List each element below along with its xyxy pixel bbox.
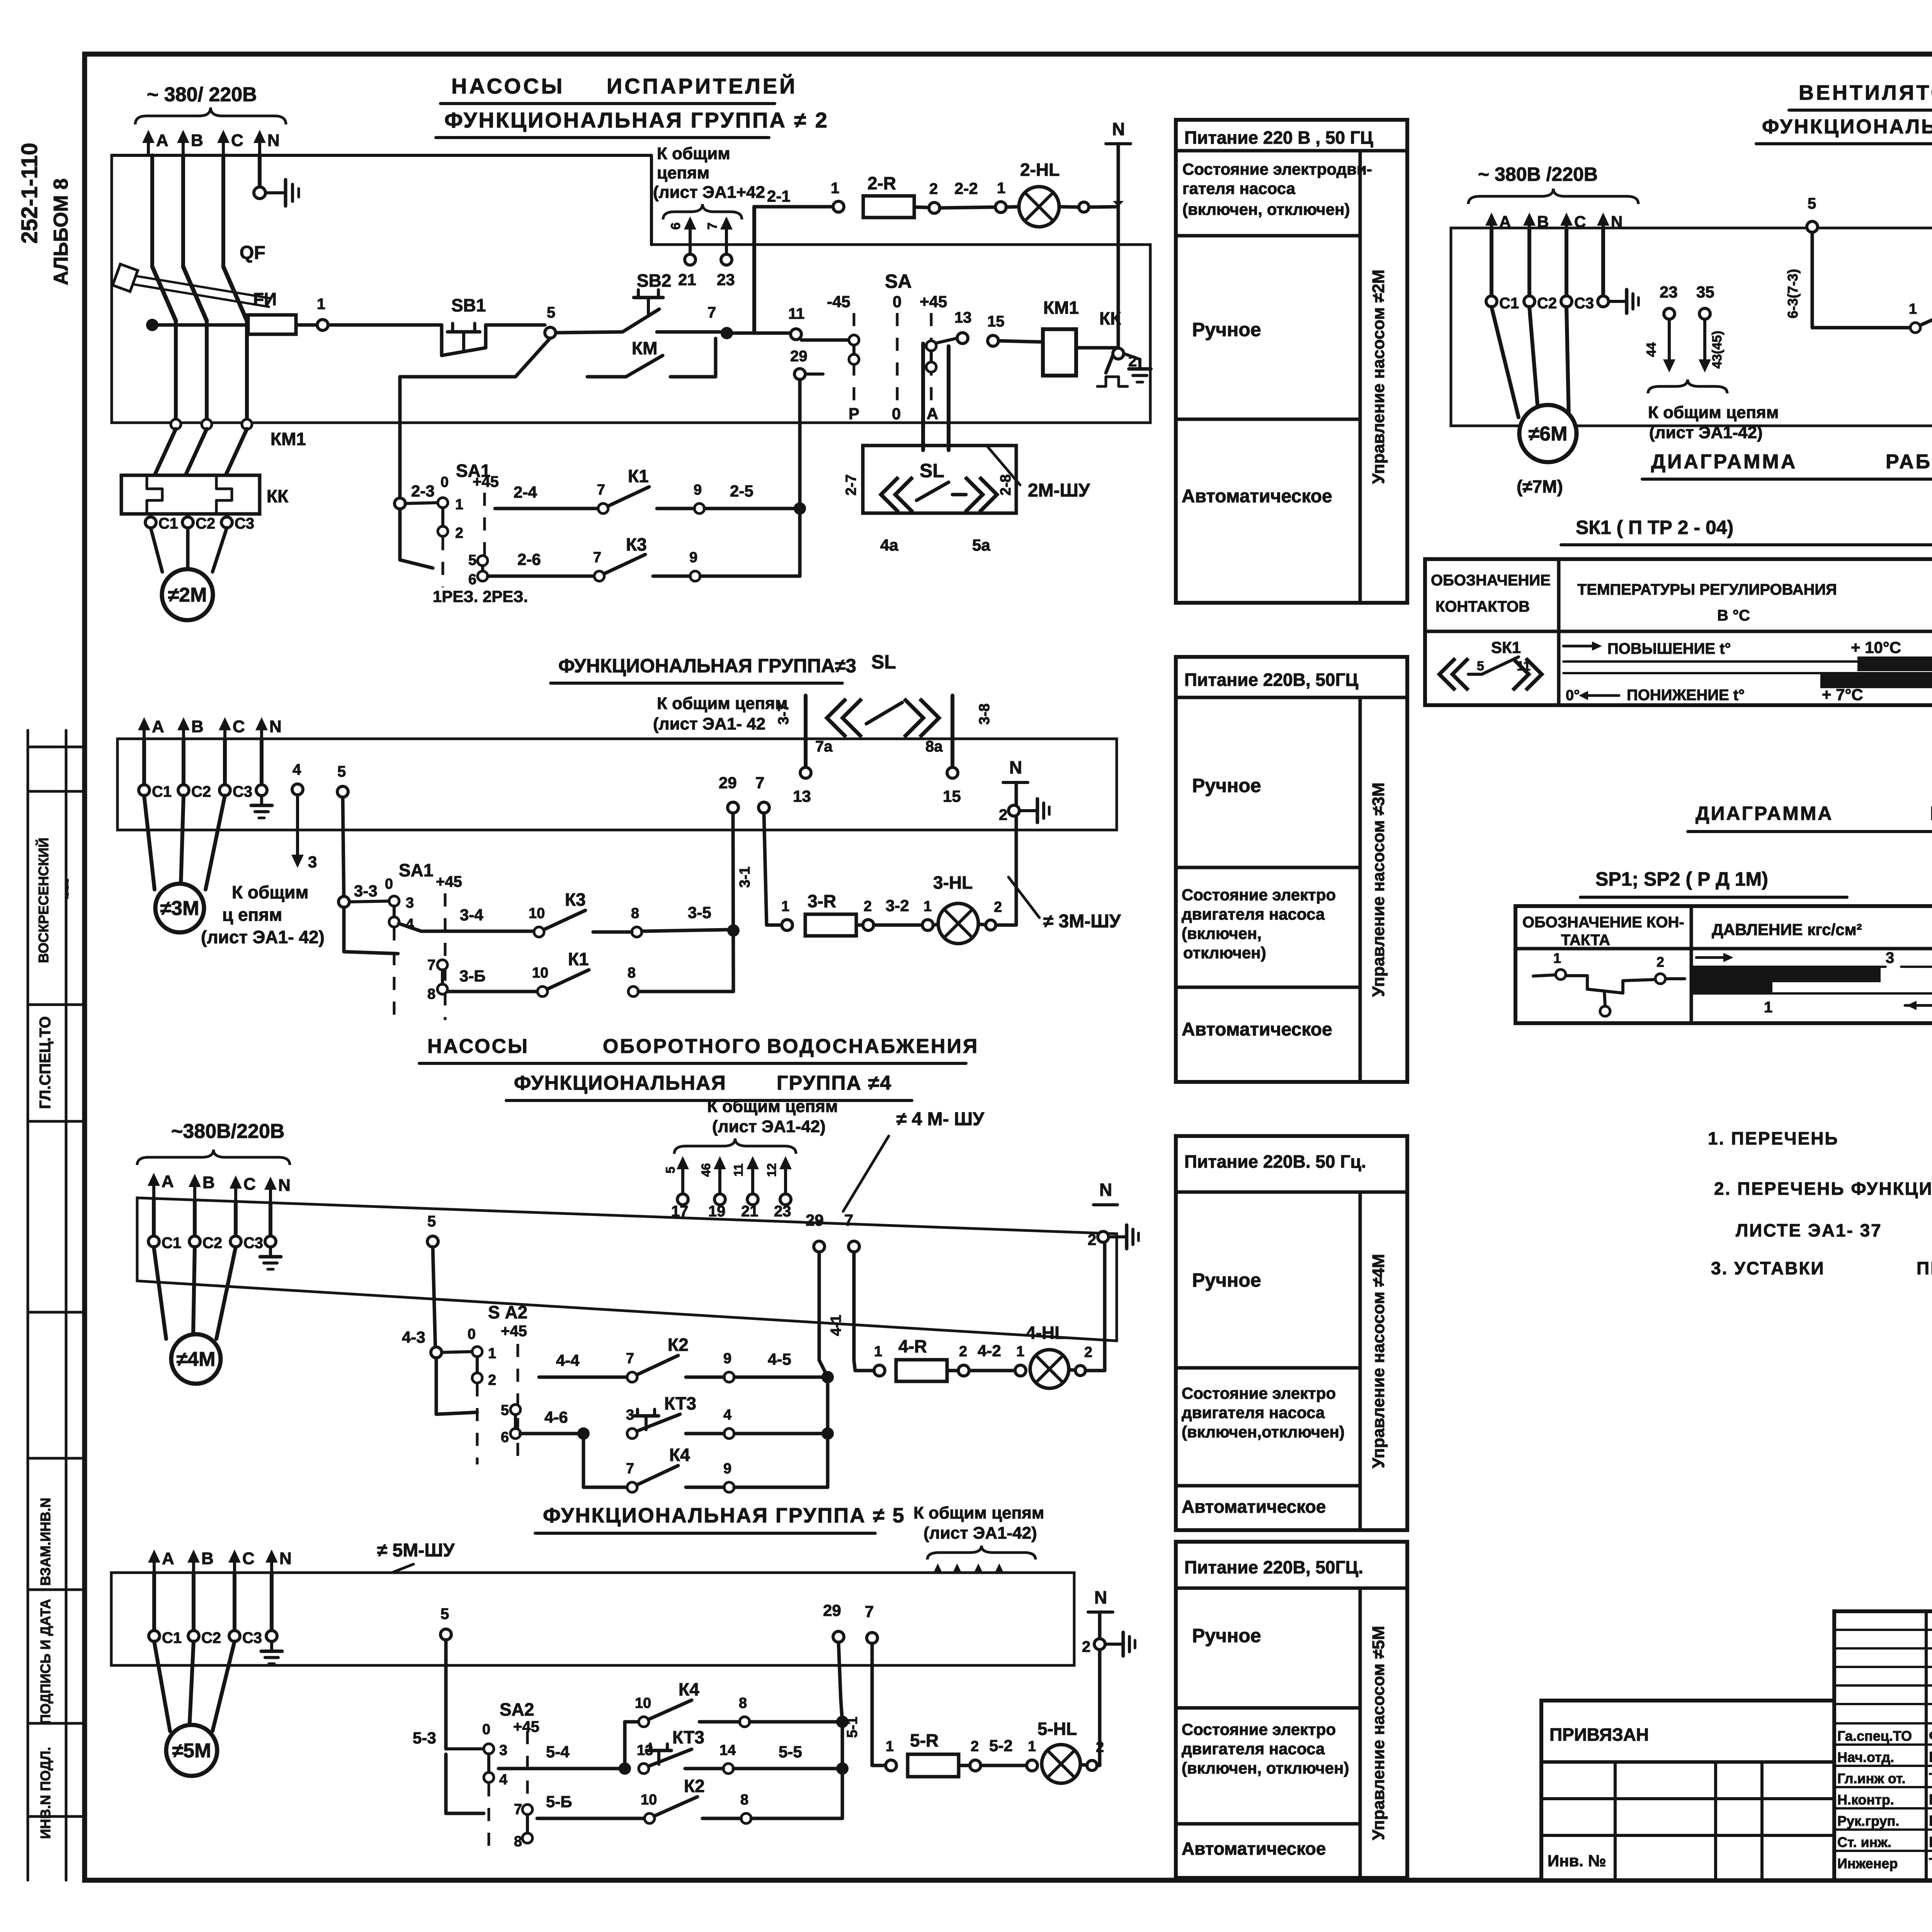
svg-text:13: 13 [793,787,811,805]
wire 4-2 group4 [969,1342,1015,1371]
svg-text:7: 7 [755,774,764,792]
svg-text:НАСОСЫ: НАСОСЫ [451,74,565,98]
svg-text:1: 1 [1016,1344,1024,1360]
svg-text:1: 1 [1028,1738,1036,1755]
terminal 4 group3 [291,761,317,871]
wire phase C down group2 [221,155,225,267]
heading ДИАГРАММА РАБОТЫ КОНТАКТОВ РЕЛЕ ДАВЛЕНИЙ [1688,802,1932,832]
svg-text:19: 19 [708,1203,726,1220]
svg-text:+ 7°С: + 7°С [1822,685,1863,704]
svg-text:3: 3 [499,1742,507,1759]
neutral N branch group2 [1106,119,1131,348]
svg-text:1: 1 [455,497,463,513]
svg-text:5: 5 [1477,659,1484,673]
phase input B group3 [177,717,204,739]
svg-text:К3: К3 [626,534,647,554]
svg-text:35: 35 [1696,283,1714,301]
svg-text:9: 9 [694,482,702,498]
svg-text:≠4М: ≠4М [177,1348,216,1371]
pressure switch symbol SP [1533,950,1685,1016]
svg-text:Гл.инж от.: Гл.инж от. [1837,1770,1905,1786]
svg-text:ВЕНТИЛЯТОРЫ: ВЕНТИЛЯТОРЫ [1799,81,1932,104]
svg-text:23: 23 [717,270,735,289]
wire node15 down to SL [947,346,951,450]
svg-text:2-4: 2-4 [514,483,537,501]
svg-text:ДИАГРАММА: ДИАГРАММА [1651,451,1797,473]
svg-text:А: А [927,405,938,423]
svg-text:3: 3 [1886,949,1894,966]
svg-text:8а: 8а [925,738,943,755]
phase input A group2 [142,130,168,155]
svg-text:К общим цепям: К общим цепям [913,1503,1044,1522]
svg-text:Га.спец.ТО: Га.спец.ТО [1837,1728,1912,1744]
svg-text:2-7: 2-7 [843,474,859,496]
svg-text:N: N [278,1176,291,1195]
left margin cell dividers [28,747,85,1816]
svg-text:С: С [243,1175,256,1194]
terminals to common circuits group4 [663,1097,838,1220]
svg-text:3-3: 3-3 [354,882,378,900]
resistor 4-R group4 [896,1336,947,1381]
node 7 group5 [865,1602,886,1765]
svg-text:ВОДОСНАБЖЕНИЯ: ВОДОСНАБЖЕНИЯ [767,1035,979,1058]
interlock contact K4 group4 [583,1439,828,1492]
svg-text:29: 29 [823,1601,841,1619]
svg-text:В °С: В °С [1717,607,1750,624]
svg-text:К1: К1 [568,949,589,969]
svg-text:В: В [201,1549,214,1568]
wire 2-2 group2 [940,179,995,208]
svg-text:21: 21 [678,270,696,289]
svg-text:SА2: SА2 [500,1699,534,1719]
svg-text:С2: С2 [202,1235,222,1252]
svg-text:1: 1 [997,180,1005,197]
svg-text:8: 8 [631,905,639,922]
diagram rows SK1 [1563,638,1932,704]
svg-text:Управление насосом ≠4М: Управление насосом ≠4М [1369,1254,1388,1468]
wires phases down group6 [1492,228,1603,296]
node 1 of 4-R group4 [874,1344,885,1376]
phase input B group2 [177,130,203,155]
svg-text:двигателя насоса: двигателя насоса [1182,1403,1325,1422]
resistor 3-R group3 [805,891,856,936]
svg-text:ПРИВЯЗАН: ПРИВЯЗАН [1549,1725,1649,1745]
phase input C group3 [219,717,245,739]
label ~380/220В group2 [135,83,286,124]
svg-text:15: 15 [943,787,961,805]
node 1 of lamp group3 [922,898,933,930]
svg-text:2-R: 2-R [867,173,896,193]
phase input C group4 [230,1175,256,1202]
neutral input N group3 [255,717,282,739]
svg-text:2: 2 [864,898,872,915]
note 3 уставки приборов [1711,1258,1932,1278]
svg-text:43(45): 43(45) [1710,331,1725,369]
label К общим цепям group3 motor [201,882,325,947]
title НАСОСЫ ИСПАРИТЕЛЕЙ [440,74,797,104]
svg-text:С1: С1 [162,1629,182,1646]
wire node 11 to SA group2 [801,338,849,342]
svg-text:К общим: К общим [232,882,309,902]
svg-text:КТ3: КТ3 [672,1727,704,1747]
label 5М-ШУ with leader group5 [330,1540,455,1597]
svg-text:ц епям: ц епям [222,905,282,925]
svg-text:23: 23 [774,1203,791,1220]
svg-text:ДИАГРАММА: ДИАГРАММА [1696,803,1833,824]
svg-text:К4: К4 [679,1679,699,1699]
svg-text:5а: 5а [972,536,990,554]
svg-text:0: 0 [892,405,901,423]
svg-text:5: 5 [547,304,555,321]
svg-text:2: 2 [1656,954,1664,970]
svg-text:Р: Р [849,405,859,423]
svg-text:ПОДПИСЬ И ДАТА: ПОДПИСЬ И ДАТА [37,1599,53,1724]
svg-text:SВ2: SВ2 [637,270,671,291]
node 2 of 2-R [914,180,940,213]
svg-text:2: 2 [929,180,938,197]
svg-text:Управление насосом ≠5М: Управление насосом ≠5М [1369,1626,1388,1840]
svg-text:5-5: 5-5 [779,1743,802,1761]
node 2 of lamp 2-HL [1059,202,1089,212]
svg-text:5-Б: 5-Б [546,1793,572,1811]
subtitle ФУНКЦИОНАЛЬНАЯ ГРУППА N4 [506,1072,912,1100]
phase input B group4 [189,1173,215,1200]
svg-text:12: 12 [765,1163,779,1177]
circuit breaker QF group2 [113,243,270,321]
node 29 wire group2 [790,348,823,576]
svg-text:3-5: 3-5 [688,903,711,922]
svg-text:К3: К3 [565,889,586,910]
svg-text:3-1: 3-1 [737,867,753,888]
wire phases down group3 [144,739,262,785]
lamp 3-HL group3 [933,872,978,944]
svg-text:3-Б: 3-Б [459,967,486,985]
table SK1 diagram [1425,559,1932,705]
svg-text:~ 380В /220В: ~ 380В /220В [1478,163,1598,185]
title НАСОСЫ ОБОРОТНОГО ВОДОСНАБЖЕНИЯ [419,1035,979,1063]
cabinet box group3 [117,739,1117,830]
node 1 of lamp group5 [1027,1738,1037,1771]
svg-text:14: 14 [719,1742,736,1759]
svg-text:В: В [191,131,203,150]
svg-text:Кожаринова: Кожаринова [1929,1813,1932,1829]
svg-text:7: 7 [626,1350,634,1367]
svg-text:4-5: 4-5 [768,1350,791,1368]
interlock contact K3 group3 [399,889,728,937]
heading ДИАГРАММА РАБОТЫ КОНТАКТОВ ПРИБОРОВ [1642,451,1932,479]
label 1рез 2рез group2 [433,587,528,605]
terminals C1 C2 C3 group3 [139,783,252,800]
svg-text:Состояние электро: Состояние электро [1182,1384,1336,1402]
svg-text:2: 2 [1084,1344,1092,1361]
label 2М-ШУ with leader [987,446,1090,501]
svg-text:N: N [279,1549,292,1568]
svg-text:≠ 4 М- ШУ: ≠ 4 М- ШУ [896,1109,985,1129]
relay contact K5(K6) group6 [1812,283,1932,333]
node 1 of lamp 2-HL [995,180,1006,213]
phase input A group4 [148,1172,174,1199]
svg-text:Филин: Филин [1929,1728,1932,1744]
svg-text:N: N [1009,757,1022,777]
svg-text:1: 1 [781,898,789,915]
terminals to common circuits group5 [913,1503,1044,1631]
table управление насосом 5М [1176,1542,1407,1878]
resistor 5-R group5 [908,1730,959,1777]
svg-text:Н.контр.: Н.контр. [1837,1792,1894,1808]
svg-text:Рощин: Рощин [1929,1749,1932,1765]
svg-text:цепям: цепям [657,163,709,182]
contactor KM1 main contacts group2 [155,419,306,475]
svg-text:≠6М: ≠6М [1529,423,1568,445]
neutral input N group4 [264,1176,291,1203]
note 1 перечень аппаратуры [1708,1128,1932,1148]
svg-text:21: 21 [741,1203,759,1220]
svg-text:(лист ЭА1-42): (лист ЭА1-42) [712,1117,826,1136]
svg-text:+ 10°С: + 10°С [1851,638,1901,656]
svg-text:Ручное: Ручное [1192,775,1261,796]
svg-text:≠ 3М-ШУ: ≠ 3М-ШУ [1043,911,1121,932]
interlock contact K3 group2 [488,534,800,581]
svg-text:≠2М: ≠2М [168,584,207,606]
thermal relay KK heaters group2 [121,475,289,514]
motor 6M group6 [1492,307,1577,497]
thermal contact KK group2 [1076,308,1128,386]
svg-text:2: 2 [455,525,463,541]
svg-text:А: А [162,1172,174,1191]
subtitle ФУНКЦИОНАЛЬНАЯ ГРУППА N3 [551,655,856,683]
svg-text:9: 9 [723,1350,731,1367]
svg-text:3: 3 [308,853,317,871]
svg-text:N: N [1094,1587,1107,1607]
svg-text:(лист ЭА1- 42: (лист ЭА1- 42 [653,714,765,733]
svg-text:13: 13 [954,309,972,326]
svg-text:А: А [152,717,164,736]
label ~380В/220В group6 [1468,163,1638,204]
wire 5-2 group5 [981,1736,1027,1765]
svg-text:29: 29 [790,348,808,365]
terminal 5 group4 [427,1213,438,1352]
ground symbol at KK group2 [1124,354,1151,382]
document number 252-1-110 rotated [17,143,42,243]
label ~380В/220В group4 [137,1120,290,1165]
wire lamp to N group4 [1103,1242,1107,1371]
svg-text:2-6: 2-6 [517,550,541,568]
title SP1 SP2 (РД 1М) [1580,868,1847,897]
svg-text:6-3(7-3): 6-3(7-3) [1785,269,1801,318]
svg-text:≠5М: ≠5М [172,1740,211,1762]
svg-text:К общим цепям: К общим цепям [707,1097,838,1116]
svg-text:С1: С1 [158,515,178,532]
svg-text:7а: 7а [815,738,833,755]
svg-text:8: 8 [514,1833,522,1850]
svg-text:(лист ЭА1-42): (лист ЭА1-42) [923,1524,1037,1543]
svg-text:2: 2 [1082,1638,1090,1655]
svg-text:44: 44 [1644,342,1659,357]
svg-text:7: 7 [705,223,720,230]
svg-text:Автоматическое: Автоматическое [1182,1838,1326,1859]
svg-text:Автоматическое: Автоматическое [1182,486,1332,507]
wire QF to KM1 phase A [174,321,178,419]
svg-text:Ст. инж.: Ст. инж. [1837,1834,1891,1850]
motor terminals C1 C2 C3 group2 [145,515,254,532]
wire node13 down to SL [921,344,925,450]
svg-text:5: 5 [468,552,476,568]
svg-text:1: 1 [1909,301,1917,317]
fuse FU group2 [146,289,296,334]
svg-text:2-2: 2-2 [954,179,978,197]
limit switch SL contacts group2 [843,460,1014,554]
svg-text:С2: С2 [196,515,215,532]
motor 2M group2 [151,528,227,620]
wire node1 to SB1 [328,323,442,327]
node 2 of 3-R group3 [856,898,874,930]
table SP1 SP2 diagram [1515,906,1932,1023]
node 15 group2 [987,313,1005,346]
svg-text:С1: С1 [152,783,172,800]
svg-text:5: 5 [1808,195,1816,212]
svg-text:3-R: 3-R [808,891,836,911]
left margin rotated label Взам.инв.N [37,1498,53,1586]
svg-text:С2: С2 [191,783,211,800]
svg-text:4-2: 4-2 [978,1342,1001,1360]
svg-text:2: 2 [1088,1231,1096,1248]
svg-text:8: 8 [427,986,435,1002]
svg-text:~380В/220В: ~380В/220В [171,1120,284,1143]
svg-text:1: 1 [923,898,932,915]
interlock contact K2 group4 [539,1335,828,1382]
motor 3M group3 [144,796,225,932]
svg-text:2: 2 [971,1738,979,1755]
svg-text:0: 0 [482,1721,490,1738]
svg-text:≠3М: ≠3М [160,897,199,920]
svg-text:1: 1 [1764,999,1772,1016]
time relay contact KT3 group4 [520,1393,828,1440]
svg-text:(включен,: (включен, [1182,924,1262,942]
svg-text:11: 11 [731,1163,745,1177]
svg-text:А: А [162,1549,174,1568]
svg-text:7: 7 [865,1602,874,1621]
svg-text:1: 1 [831,180,839,197]
wire lamp to N group2 [1089,201,1124,207]
svg-text:Автоматическое: Автоматическое [1182,1497,1326,1517]
node 29 group4 [806,1211,834,1487]
svg-text:Рук.груп.: Рук.груп. [1837,1813,1899,1829]
neutral N group4 [1088,1180,1138,1249]
neutral terminal and ground group2 [254,180,299,206]
svg-text:15: 15 [987,313,1005,330]
svg-text:ВЗАМ.ИНВ.N: ВЗАМ.ИНВ.N [37,1498,53,1586]
svg-text:3-8: 3-8 [976,704,993,725]
selector SA1 group2 [395,377,499,588]
node 5 group6 [1785,195,1818,328]
svg-text:3-2: 3-2 [886,896,909,915]
svg-text:+45: +45 [501,1323,527,1340]
svg-text:+45: +45 [920,293,947,311]
wire neutral N down group2 [258,155,262,193]
lamp 5-HL group5 [1037,1719,1080,1783]
subtitle ФУНКЦИОНАЛЬНАЯ ГРУППА N5 [535,1504,905,1533]
svg-text:Питание 220В, 50ГЦ: Питание 220В, 50ГЦ [1184,670,1359,690]
neutral input N group6 [1597,213,1622,231]
node 13 group2 [954,309,972,344]
svg-text:отключен): отключен) [1183,944,1266,962]
wire phase B down group2 [181,155,185,267]
title block signature table [1834,1611,1932,1880]
svg-text:2: 2 [999,806,1007,823]
svg-text:5: 5 [427,1213,436,1230]
svg-text:Автоматическое: Автоматическое [1182,1019,1332,1040]
svg-text:КОНТАКТОВ: КОНТАКТОВ [1435,598,1530,615]
neutral ground group3 [251,785,272,818]
svg-text:N: N [1099,1180,1112,1200]
svg-text:1: 1 [317,296,325,313]
selector SA1 group3 [338,860,462,1020]
note 2 line 2 листе ЭА1-37 [1736,1220,1882,1240]
wire QF to KM1 phase B [205,321,209,419]
annex table ПРИВЯЗАН [1541,1701,1834,1880]
svg-text:2-8: 2-8 [998,474,1014,496]
svg-text:5: 5 [337,763,346,780]
svg-text:10: 10 [532,965,548,981]
svg-text:НАСОСЫ: НАСОСЫ [427,1035,529,1058]
svg-text:3: 3 [406,895,414,911]
node 1 of 2-R [831,180,844,212]
svg-text:SР1; SР2 ( Р Д 1М): SР1; SР2 ( Р Д 1М) [1595,868,1768,890]
svg-text:ЛИСТЕ ЭА1- 37: ЛИСТЕ ЭА1- 37 [1736,1220,1882,1240]
svg-text:7: 7 [844,1211,853,1229]
motor 5M group5 [154,1641,235,1776]
svg-text:Ручное: Ручное [1192,1269,1261,1291]
indication branch 2-R lamp 2-HL group2 [754,187,833,333]
svg-text:0: 0 [385,876,393,892]
svg-text:2-3: 2-3 [411,482,435,500]
label К общим цепям group6 [1648,403,1779,442]
svg-text:2М-ШУ: 2М-ШУ [1028,480,1090,501]
node 5 group2 [545,304,556,338]
svg-text:Питание 220 В , 50 ГЦ: Питание 220 В , 50 ГЦ [1184,128,1373,148]
time relay contact KT3 group5 [498,1727,842,1775]
node 1 of lamp group4 [1015,1344,1026,1376]
wire QF to KM1 phase C [245,321,249,419]
svg-text:(включен, отключен): (включен, отключен) [1182,200,1350,218]
indication lamp branch group4 [855,1369,874,1372]
svg-text:К общим цепям: К общим цепям [657,694,787,713]
contactor coil KM1 group2 [998,298,1079,376]
svg-text:Состояние электро: Состояние электро [1182,1720,1336,1738]
svg-text:3. УСТАВКИ: 3. УСТАВКИ [1711,1258,1825,1278]
phase input A group6 [1485,213,1511,231]
left margin rotated label Подпись и дата [37,1599,53,1724]
svg-text:В: В [202,1173,215,1192]
svg-text:Питание 220В. 50 Гц.: Питание 220В. 50 Гц. [1184,1151,1366,1172]
svg-text:Инв. №: Инв. № [1548,1852,1606,1870]
svg-text:4-4: 4-4 [556,1351,580,1369]
svg-text:ИСПАРИТЕЛЕЙ: ИСПАРИТЕЛЕЙ [607,74,797,98]
svg-text:КМ1: КМ1 [1043,298,1079,318]
svg-text:5-R: 5-R [910,1730,939,1750]
node 1 group2 [317,296,328,330]
svg-text:К2: К2 [684,1776,705,1796]
interlock contact K2 group5 [537,1776,842,1823]
svg-text:2-НL: 2-НL [1020,160,1060,180]
node 2 of 4-R group4 [947,1344,969,1376]
wire 3-2 group3 [874,896,922,925]
node 7 group4 [828,1211,859,1371]
svg-text:1: 1 [1553,950,1561,966]
svg-text:С3: С3 [1574,295,1594,312]
neutral ground group4 [260,1236,281,1269]
svg-text:С1: С1 [1499,295,1519,312]
